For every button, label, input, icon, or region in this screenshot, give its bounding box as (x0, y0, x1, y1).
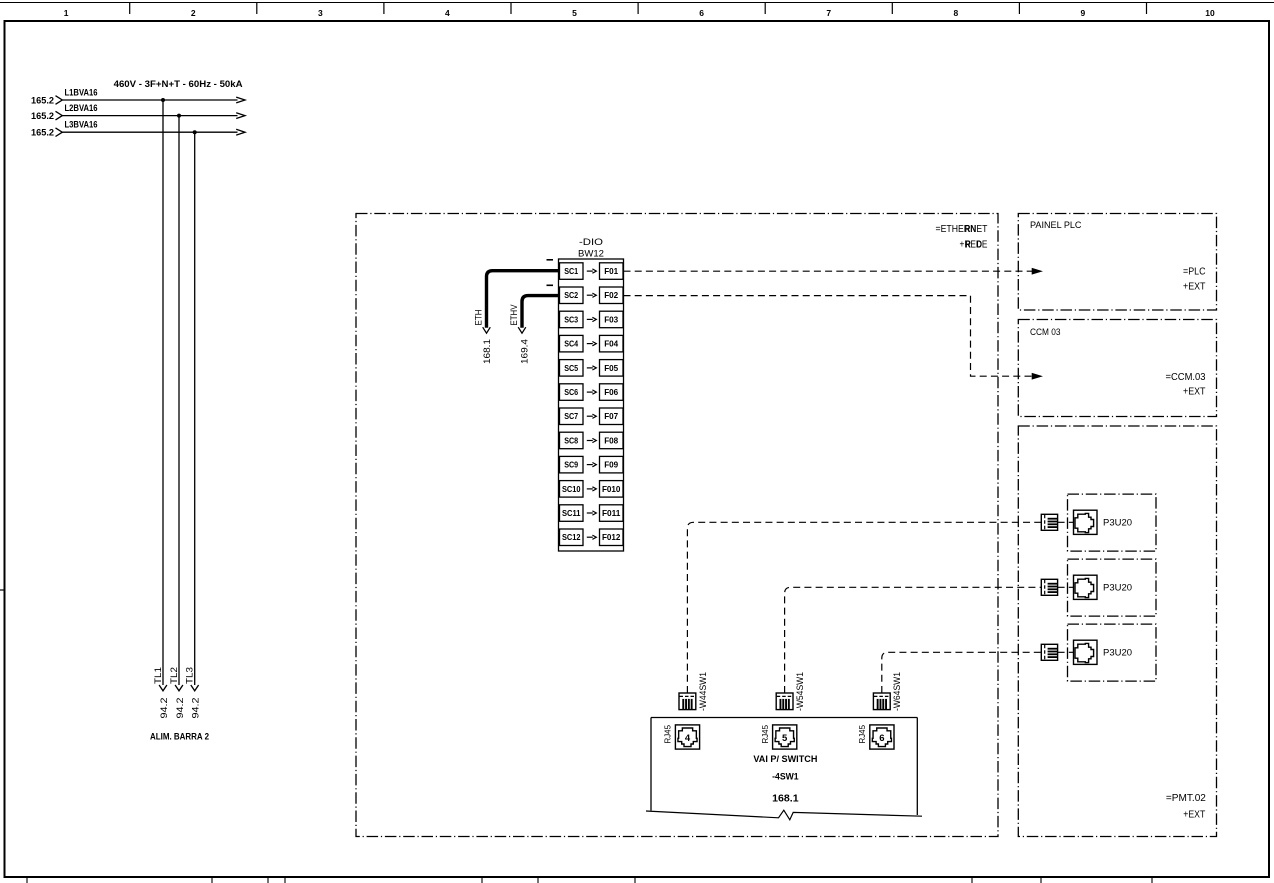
chevron arrow ETHV (518, 327, 526, 333)
svg-text:6: 6 (699, 8, 704, 18)
svg-text:VAI P/ SWITCH: VAI P/ SWITCH (753, 754, 817, 765)
chevron arrow TL2 (175, 685, 183, 691)
svg-text:SC2: SC2 (564, 290, 578, 300)
svg-text:4: 4 (445, 8, 450, 18)
terminal SC5 (560, 360, 584, 377)
svg-text:F04: F04 (604, 339, 618, 349)
svg-text:RJ45: RJ45 (664, 724, 673, 743)
svg-text:SC9: SC9 (564, 460, 578, 470)
svg-text:+EXT: +EXT (1183, 281, 1206, 292)
border ruler column numbers 1-10 (64, 8, 1215, 18)
terminal F03 (600, 311, 624, 328)
arrowhead into PLC (1032, 269, 1041, 274)
box PAINEL PLC (1018, 214, 1216, 311)
svg-text:10: 10 (1205, 8, 1215, 18)
svg-text:168.1: 168.1 (482, 339, 493, 364)
jack P3U20 #3 (1074, 640, 1098, 664)
svg-text:1: 1 (64, 8, 69, 18)
patch panel block -DIO BW12 outline (559, 259, 624, 551)
terminal F012 (600, 529, 624, 546)
svg-text:P3U20: P3U20 (1103, 648, 1132, 659)
svg-text:+REDE: +REDE (960, 240, 988, 251)
svg-text:F09: F09 (604, 460, 618, 470)
svg-text:8: 8 (954, 8, 959, 18)
border ruler top line (0, 2, 1274, 4)
terminal F010 (600, 481, 624, 498)
terminal F08 (600, 432, 624, 449)
svg-text:94.2: 94.2 (191, 698, 202, 719)
terminal F09 (600, 456, 624, 473)
svg-text:F012: F012 (602, 532, 621, 542)
svg-text:+EXT: +EXT (1183, 386, 1206, 397)
border row tick left (0, 589, 5, 591)
break line bottom of switch box (646, 810, 922, 820)
junction node L3BVA16 (193, 130, 197, 134)
jack RJ45 port 6 (870, 725, 894, 749)
svg-text:460V - 3F+N+T - 60Hz - 50kA: 460V - 3F+N+T - 60Hz - 50kA (114, 79, 243, 90)
svg-text:RJ45: RJ45 (858, 724, 867, 743)
plug connector -W54SW1 (776, 693, 793, 710)
arrowhead L1BVA16 (236, 97, 245, 103)
terminal SC8 (560, 432, 584, 449)
svg-text:168.1: 168.1 (772, 793, 799, 804)
svg-text:ETHV: ETHV (509, 305, 519, 326)
svg-text:F03: F03 (604, 314, 618, 324)
wire to P3U20 #1 (dashed) (687, 522, 1041, 693)
svg-text:BW12: BW12 (578, 249, 604, 260)
svg-text:R: R (965, 240, 971, 251)
wire to P3U20 #3 (dashed) (882, 652, 1042, 693)
arrowhead L3BVA16 (236, 129, 245, 135)
svg-text:+EXT: +EXT (1183, 809, 1205, 820)
plug connector -W44SW1 (679, 693, 696, 710)
terminal F011 (600, 505, 624, 522)
arrow SC2 to F02 (587, 294, 593, 296)
terminal SC6 (560, 384, 584, 401)
svg-text:165.2: 165.2 (31, 111, 54, 122)
svg-text:-4SW1: -4SW1 (772, 771, 799, 782)
svg-text:-W64SW1: -W64SW1 (892, 672, 902, 711)
svg-text:=ETHERNET: =ETHERNET (936, 224, 988, 235)
svg-text:ALIM. BARRA 2: ALIM. BARRA 2 (150, 732, 209, 743)
jack P3U20 #1 (1074, 510, 1098, 534)
arrow SC4 to F04 (587, 343, 593, 345)
svg-text:F01: F01 (604, 266, 618, 276)
svg-text:-W54SW1: -W54SW1 (795, 672, 805, 711)
terminal F06 (600, 384, 624, 401)
svg-text:165.2: 165.2 (31, 128, 54, 139)
svg-text:6: 6 (879, 733, 884, 744)
chevron arrow line 1 (56, 96, 63, 105)
svg-text:F08: F08 (604, 436, 618, 446)
box =PMT.02 +EXT (1018, 426, 1216, 837)
svg-text:5: 5 (782, 733, 788, 744)
svg-text:RJ45: RJ45 (761, 724, 770, 743)
plug connector module #3 (1041, 644, 1057, 660)
svg-text:=PMT.02: =PMT.02 (1166, 793, 1206, 804)
svg-text:169.4: 169.4 (520, 339, 531, 364)
svg-text:4: 4 (685, 733, 691, 744)
wire vertical drop TL2 (178, 116, 180, 685)
chevron arrow line 2 (56, 111, 63, 120)
svg-text:=CCM.03: =CCM.03 (1166, 372, 1207, 383)
terminal F05 (600, 360, 624, 377)
module box P3U20 #2 (1068, 559, 1157, 616)
svg-text:SC1: SC1 (564, 266, 578, 276)
terminal F04 (600, 335, 624, 352)
svg-text:SC7: SC7 (564, 411, 578, 421)
svg-text:CCM 03: CCM 03 (1030, 327, 1061, 338)
svg-text:F011: F011 (602, 508, 621, 518)
terminal F01 (600, 263, 624, 280)
junction node L2BVA16 (177, 114, 181, 118)
terminal F02 (600, 287, 624, 304)
chevron arrow TL3 (191, 685, 199, 691)
enclosure box =ETHERNET +REDE (356, 214, 998, 837)
svg-text:TL3: TL3 (185, 667, 195, 684)
polarity mark SC2 (547, 284, 554, 286)
wire ETH (thick) (487, 271, 559, 328)
jack P3U20 #2 (1074, 575, 1098, 599)
wire ETHV (thick) (522, 296, 559, 328)
module box P3U20 #3 (1068, 624, 1157, 681)
svg-text:F07: F07 (604, 411, 618, 421)
jack RJ45 port 5 (773, 725, 797, 749)
arrowhead L2BVA16 (236, 113, 245, 119)
svg-text:9: 9 (1081, 8, 1086, 18)
plug connector -W64SW1 (873, 693, 890, 710)
arrow SC11 to F011 (587, 512, 593, 514)
terminal F07 (600, 408, 624, 425)
svg-text:-DIO: -DIO (579, 237, 603, 248)
svg-text:L1BVA16: L1BVA16 (65, 88, 98, 99)
terminal SC1 (560, 263, 584, 280)
title block column ticks bottom (27, 877, 1152, 883)
arrow SC1 to F01 (587, 270, 593, 272)
svg-text:L2BVA16: L2BVA16 (65, 103, 98, 114)
terminal SC12 (560, 529, 584, 546)
svg-text:SC5: SC5 (564, 363, 578, 373)
box CCM 03 (1018, 320, 1216, 417)
svg-text:SC11: SC11 (562, 508, 581, 518)
wire vertical drop TL3 (194, 132, 196, 685)
svg-text:SC3: SC3 (564, 314, 578, 324)
svg-text:-W44SW1: -W44SW1 (698, 672, 708, 711)
wire vertical drop TL1 (162, 100, 164, 685)
arrow SC10 to F010 (587, 488, 593, 490)
arrow SC8 to F08 (587, 440, 593, 442)
svg-text:P3U20: P3U20 (1103, 518, 1132, 529)
svg-text:F010: F010 (602, 484, 621, 494)
arrow SC6 to F06 (587, 391, 593, 393)
svg-text:F06: F06 (604, 387, 618, 397)
svg-text:RN: RN (965, 224, 977, 235)
svg-text:TL2: TL2 (169, 667, 179, 684)
arrow SC9 to F09 (587, 464, 593, 466)
polarity mark SC1 (547, 259, 554, 261)
svg-text:P3U20: P3U20 (1103, 583, 1132, 594)
wire to P3U20 #2 (dashed) (785, 587, 1042, 693)
plug connector module #2 (1041, 579, 1057, 595)
svg-text:2: 2 (191, 8, 196, 18)
svg-text:PAINEL PLC: PAINEL PLC (1030, 220, 1082, 231)
svg-text:94.2: 94.2 (175, 698, 186, 719)
svg-text:D: D (976, 240, 982, 251)
wire F01 to PLC (dashed) (624, 270, 1034, 272)
terminal SC4 (560, 335, 584, 352)
svg-text:TL1: TL1 (153, 667, 163, 684)
svg-text:165.2: 165.2 (31, 95, 54, 106)
wire F02 to CCM (dashed) (624, 296, 1034, 377)
terminal SC11 (560, 505, 584, 522)
switch box -4SW1 outline (651, 717, 917, 719)
terminal SC10 (560, 481, 584, 498)
arrow SC5 to F05 (587, 367, 593, 369)
arrowhead into CCM (1032, 374, 1041, 379)
terminal SC2 (560, 287, 584, 304)
svg-text:7: 7 (826, 8, 831, 18)
svg-text:L3BVA16: L3BVA16 (65, 120, 98, 131)
junction node L1BVA16 (161, 98, 165, 102)
svg-text:SC10: SC10 (562, 484, 581, 494)
svg-text:94.2: 94.2 (159, 698, 170, 719)
svg-text:SC4: SC4 (564, 339, 578, 349)
terminal SC9 (560, 456, 584, 473)
wire phase L3BVA16 (62, 131, 237, 133)
chevron arrow ETH (483, 327, 491, 333)
module box P3U20 #1 (1068, 494, 1157, 551)
svg-text:F05: F05 (604, 363, 618, 373)
arrow SC3 to F03 (587, 318, 593, 320)
wire phase L2BVA16 (62, 115, 237, 117)
terminal SC7 (560, 408, 584, 425)
svg-text:F02: F02 (604, 290, 618, 300)
svg-text:SC12: SC12 (562, 532, 581, 542)
chevron arrow line 3 (56, 128, 63, 137)
chevron arrow TL1 (159, 685, 167, 691)
arrow SC7 to F07 (587, 415, 593, 417)
arrow SC12 to F012 (587, 536, 593, 538)
svg-text:ETH: ETH (473, 310, 483, 326)
svg-text:5: 5 (572, 8, 577, 18)
svg-text:3: 3 (318, 8, 323, 18)
border ruler ticks (130, 3, 1147, 15)
svg-text:SC8: SC8 (564, 436, 578, 446)
wire phase L1BVA16 (62, 99, 237, 101)
svg-text:=PLC: =PLC (1183, 267, 1206, 278)
plug connector module #1 (1041, 514, 1057, 530)
terminal SC3 (560, 311, 584, 328)
jack RJ45 port 4 (675, 725, 699, 749)
svg-text:SC6: SC6 (564, 387, 578, 397)
